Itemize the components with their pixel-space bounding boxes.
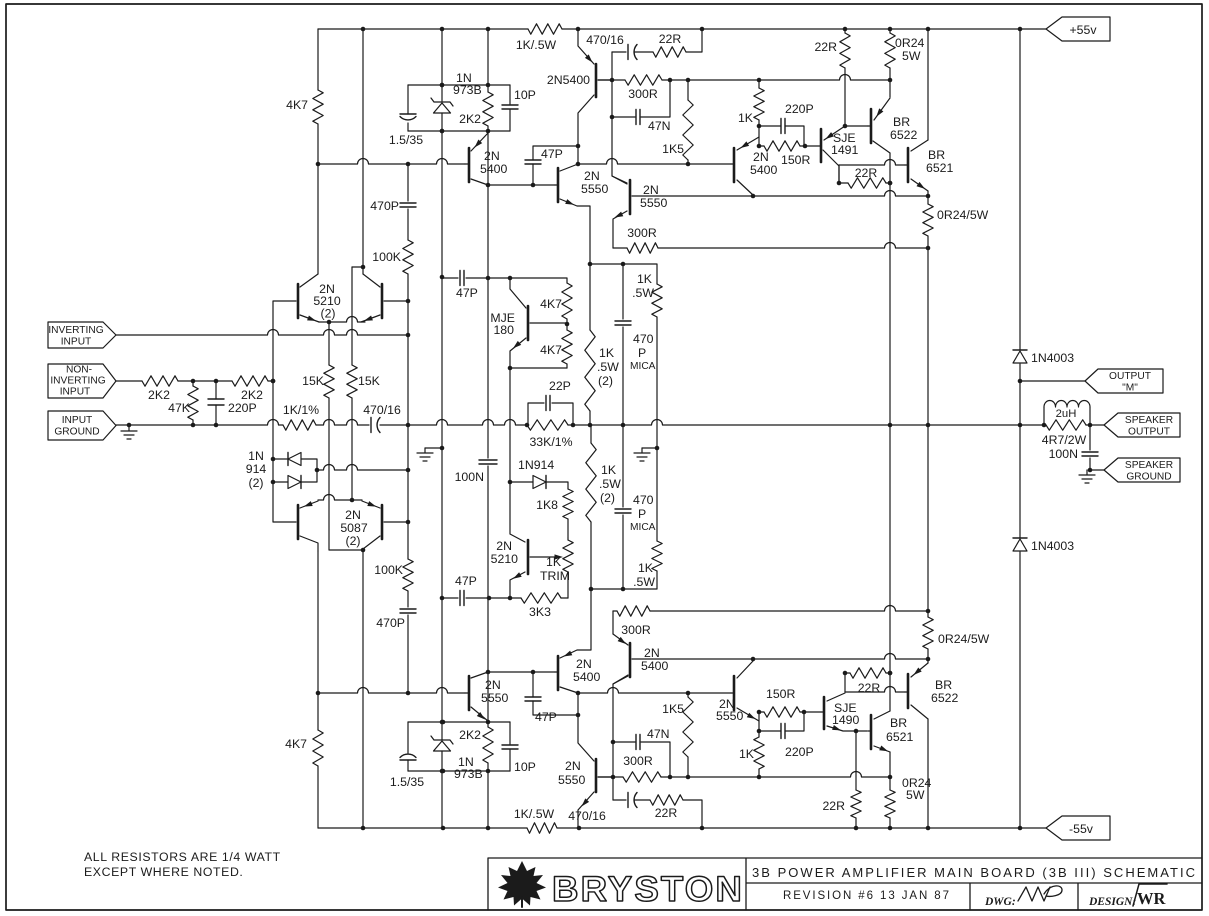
- wire x488 lower: [487, 598, 489, 828]
- resistor 22R vert bottom: [822, 731, 861, 828]
- wire row y672: [486, 670, 555, 675]
- svg-text:47N: 47N: [647, 727, 670, 741]
- svg-text:150R: 150R: [766, 687, 796, 701]
- resistor 1K TRIM: [540, 538, 573, 598]
- svg-text:REVISION #6 13 JAN 87: REVISION #6 13 JAN 87: [783, 890, 949, 902]
- svg-text:100K: 100K: [374, 563, 404, 577]
- wire row y470: [317, 465, 410, 473]
- svg-text:+55v: +55v: [1069, 23, 1097, 37]
- svg-text:GROUND: GROUND: [54, 427, 99, 438]
- svg-text:470P: 470P: [376, 616, 405, 630]
- wire x890 top: [888, 80, 893, 425]
- svg-text:1K/.5W: 1K/.5W: [516, 38, 557, 52]
- resistor 100K lower: [374, 522, 413, 607]
- svg-text:4K7: 4K7: [540, 343, 562, 357]
- svg-text:BR: BR: [890, 716, 907, 730]
- svg-text:1K: 1K: [738, 111, 754, 125]
- svg-text:ALL RESISTORS ARE 1/4 WATT: ALL RESISTORS ARE 1/4 WATT: [84, 850, 281, 864]
- DWG signature: [1018, 886, 1062, 901]
- svg-text:(2): (2): [320, 307, 335, 321]
- zener 1N973B top: [431, 71, 482, 113]
- resistor 2K2 input B: [232, 376, 273, 402]
- svg-text:0R24/5W: 0R24/5W: [938, 632, 990, 646]
- svg-text:5087: 5087: [340, 521, 368, 535]
- inductor 2uH: [1044, 401, 1090, 426]
- transistor BR6522 upper: [868, 98, 918, 153]
- wire row y278: [442, 276, 567, 283]
- logo maple leaf: [498, 861, 546, 907]
- capacitor 47P row278: [456, 271, 478, 301]
- svg-text:10P: 10P: [514, 760, 536, 774]
- transistor 2N5550 Q2: [555, 164, 609, 264]
- wire x488 upper: [487, 29, 489, 278]
- transistor 2N5400 Q10: [613, 611, 669, 684]
- svg-text:100K: 100K: [372, 250, 402, 264]
- svg-text:5550: 5550: [640, 196, 668, 210]
- svg-text:-55v: -55v: [1069, 822, 1094, 836]
- svg-text:470P: 470P: [370, 199, 399, 213]
- svg-text:22P: 22P: [549, 379, 571, 393]
- flag SPEAKER GROUND: [1079, 458, 1180, 483]
- transistor 2N5550 Q7: [465, 672, 509, 721]
- svg-text:2N: 2N: [345, 508, 361, 522]
- ground mid right: [634, 446, 659, 461]
- resistor 33K/1%: [527, 420, 573, 449]
- transistor SJE1491: [805, 126, 859, 183]
- capacitor 47N bottom: [613, 727, 670, 777]
- capacitor 47P loop bottom: [525, 672, 578, 724]
- wire x408 upper: [407, 164, 409, 240]
- wire x890 bottom: [888, 425, 893, 777]
- svg-text:"M": "M": [1122, 383, 1138, 394]
- svg-text:(2): (2): [345, 534, 360, 548]
- transistor 2N5087 pair: [298, 495, 382, 553]
- DWG label: [984, 896, 1016, 908]
- svg-text:470/16: 470/16: [568, 809, 606, 823]
- svg-text:22R: 22R: [858, 681, 881, 695]
- svg-text:1N4003: 1N4003: [1031, 351, 1074, 365]
- flag INPUT GROUND: [48, 411, 116, 440]
- zener 1N973B bottom: [431, 736, 483, 781]
- resistor 4K7 B: [540, 324, 572, 368]
- wire 5087 base right: [384, 520, 410, 525]
- capacitor 22P: [528, 379, 573, 425]
- svg-text:1N914: 1N914: [518, 458, 554, 472]
- svg-text:1K/1%: 1K/1%: [283, 403, 319, 417]
- svg-text:1.5/35: 1.5/35: [390, 775, 424, 789]
- flag -55v: [1046, 816, 1110, 840]
- svg-text:5400: 5400: [480, 162, 508, 176]
- flag OUTPUT M: [1020, 369, 1163, 394]
- svg-text:GROUND: GROUND: [1126, 472, 1171, 483]
- resistor 2K2 bottom: [459, 722, 493, 771]
- svg-text:220P: 220P: [228, 401, 257, 415]
- resistor 2K2 input A: [116, 376, 275, 402]
- wire row y185: [486, 183, 555, 188]
- svg-text:1.5/35: 1.5/35: [389, 133, 423, 147]
- resistor 300R top: [625, 75, 662, 101]
- svg-text:470/16: 470/16: [363, 403, 401, 417]
- resistor 22R row y673: [843, 668, 893, 695]
- wire row y692 SJE collector: [845, 673, 905, 692]
- capacitor 470P upper: [370, 199, 416, 213]
- diode 1N4003 lower: [1013, 538, 1074, 828]
- svg-text:1K: 1K: [637, 272, 653, 286]
- svg-text:1K/.5W: 1K/.5W: [514, 807, 555, 821]
- wire x759 mid top: [757, 124, 762, 149]
- transistor MJE180: [490, 278, 567, 368]
- resistor 22R row y183: [837, 165, 893, 188]
- svg-text:5550: 5550: [716, 709, 744, 723]
- wire row y165 SJE collector: [839, 160, 905, 166]
- svg-text:2N: 2N: [643, 183, 659, 197]
- resistor 1K5 bottom: [662, 693, 693, 777]
- svg-text:BR: BR: [935, 678, 952, 692]
- svg-text:P: P: [638, 346, 646, 360]
- resistor 300R mid bottom: [613, 606, 930, 638]
- transistor 2N5400 Q5: [731, 137, 778, 195]
- wire node row y693 right: [578, 688, 731, 696]
- svg-text:180: 180: [493, 323, 514, 337]
- svg-text:4K7: 4K7: [286, 98, 308, 112]
- svg-text:2N: 2N: [484, 149, 500, 163]
- svg-text:2N: 2N: [485, 678, 501, 692]
- flag SPEAKER OUTPUT: [1090, 413, 1180, 438]
- wire loop rows y85 y131: [408, 83, 510, 134]
- capacitor 47N top: [612, 80, 671, 133]
- svg-text:1N4003: 1N4003: [1031, 539, 1074, 553]
- transistor BR6522 lower: [905, 663, 959, 719]
- wire row y80: [598, 75, 892, 83]
- wire x363 lower: [362, 550, 364, 828]
- svg-text:.5W: .5W: [633, 575, 655, 589]
- resistor 15K B: [347, 267, 381, 500]
- svg-text:300R: 300R: [621, 623, 651, 637]
- title text: [752, 865, 1195, 880]
- svg-text:2N: 2N: [753, 150, 769, 164]
- resistor 0R24/5W D: [885, 776, 932, 828]
- resistor 22R top loop: [653, 29, 702, 57]
- capacitor 220P top: [759, 102, 814, 146]
- svg-text:15K: 15K: [302, 374, 325, 388]
- svg-text:5210: 5210: [491, 552, 519, 566]
- ground mid left: [417, 448, 442, 461]
- svg-text:2K2: 2K2: [148, 388, 170, 402]
- resistor 300R mid top: [613, 226, 930, 253]
- resistor 1K5 top: [662, 80, 693, 164]
- capacitor 470P MICA upper: [615, 264, 656, 425]
- svg-text:.5W: .5W: [597, 360, 619, 374]
- resistor 1K .5W mid upper: [632, 272, 662, 448]
- capacitor 220P input: [208, 381, 257, 425]
- svg-text:22R: 22R: [822, 799, 845, 813]
- resistor 4K7 A: [540, 283, 572, 326]
- wire row y659: [632, 654, 930, 662]
- svg-text:47P: 47P: [455, 574, 477, 588]
- svg-text:P: P: [638, 507, 646, 521]
- svg-text:1490: 1490: [832, 713, 860, 727]
- svg-text:MICA: MICA: [630, 361, 656, 372]
- wire loop rows y722 y771: [408, 720, 510, 774]
- svg-text:BR: BR: [928, 148, 945, 162]
- diode 1N4003 upper: [1013, 29, 1074, 381]
- svg-text:22R: 22R: [855, 166, 878, 180]
- resistor 150R bottom: [759, 687, 821, 717]
- svg-text:INPUT: INPUT: [61, 337, 92, 348]
- resistor 3K3: [521, 593, 568, 619]
- wire x612 column: [610, 52, 627, 184]
- svg-text:OUTPUT: OUTPUT: [1109, 371, 1151, 382]
- svg-text:10P: 10P: [514, 88, 536, 102]
- diode 1N914 trim: [510, 458, 568, 489]
- diode 1N914 pair: [246, 449, 320, 490]
- svg-text:5550: 5550: [581, 182, 609, 196]
- svg-text:22R: 22R: [814, 40, 837, 54]
- svg-text:300R: 300R: [628, 87, 658, 101]
- logo BRYSTON text: [552, 870, 744, 909]
- resistor 1K .5W (2) lower: [586, 425, 621, 589]
- svg-text:22R: 22R: [659, 32, 682, 46]
- svg-text:220P: 220P: [785, 102, 814, 116]
- svg-text:1K: 1K: [739, 747, 755, 761]
- svg-text:TRIM: TRIM: [540, 569, 570, 583]
- svg-text:5400: 5400: [750, 163, 778, 177]
- svg-text:47P: 47P: [535, 710, 557, 724]
- revision text: [783, 890, 949, 902]
- transistor 2N5210 Q6: [491, 482, 563, 598]
- resistor 2K2 top: [459, 85, 493, 131]
- wire x442 column: [440, 29, 445, 828]
- svg-text:470: 470: [633, 332, 654, 346]
- svg-text:2N5400: 2N5400: [547, 73, 590, 87]
- svg-text:SPEAKER: SPEAKER: [1125, 415, 1173, 426]
- transistor SJE1490: [821, 693, 867, 733]
- svg-text:5400: 5400: [641, 659, 669, 673]
- transistor 2N5550 Q4: [612, 176, 668, 248]
- svg-text:1K8: 1K8: [536, 498, 558, 512]
- resistor 1K bottom: [739, 731, 764, 777]
- wire x510 mid: [508, 368, 513, 484]
- resistor 1K/.5W top rail: [516, 24, 562, 52]
- capacitor 470/16 bottom: [568, 793, 650, 824]
- svg-text:6521: 6521: [886, 730, 914, 744]
- svg-text:INVERTING: INVERTING: [48, 325, 103, 336]
- svg-text:1K5: 1K5: [662, 142, 684, 156]
- wire x613 column bottom: [611, 676, 628, 800]
- wire row y368: [508, 366, 567, 371]
- svg-text:1N: 1N: [248, 449, 264, 463]
- svg-text:WR: WR: [1137, 889, 1167, 908]
- svg-text:470: 470: [633, 493, 654, 507]
- svg-text:2uH: 2uH: [1056, 408, 1077, 420]
- transistor 2N5210 pair: [298, 274, 382, 324]
- transistor 2N5550 Q11: [716, 661, 759, 723]
- svg-text:47P: 47P: [541, 147, 563, 161]
- svg-text:3K3: 3K3: [529, 605, 551, 619]
- wire x408 mid: [407, 301, 409, 522]
- resistor 1K/1%: [283, 403, 319, 430]
- svg-text:47N: 47N: [648, 119, 671, 133]
- resistor 4K7 upper left: [286, 29, 323, 164]
- wire x928 bottom: [927, 425, 929, 828]
- svg-text:2N: 2N: [565, 759, 581, 773]
- svg-text:47P: 47P: [456, 286, 478, 300]
- svg-text:914: 914: [246, 462, 267, 476]
- svg-text:DESIGN:: DESIGN:: [1088, 896, 1136, 908]
- capacitor 100N mid: [455, 278, 497, 598]
- wire x928 top: [927, 29, 929, 425]
- svg-text:6522: 6522: [931, 691, 959, 705]
- svg-text:0R24/5W: 0R24/5W: [937, 208, 989, 222]
- wire -55v rail: [318, 826, 1046, 831]
- svg-text:2K2: 2K2: [459, 728, 481, 742]
- wire x578 bottom: [576, 691, 594, 828]
- svg-text:300R: 300R: [627, 226, 657, 240]
- resistor 1K8: [536, 489, 573, 538]
- svg-text:1K: 1K: [638, 561, 654, 575]
- flag +55v: [1046, 17, 1110, 41]
- svg-text:2N: 2N: [496, 539, 512, 553]
- svg-text:OUTPUT: OUTPUT: [1128, 427, 1170, 438]
- svg-text:SPEAKER: SPEAKER: [1125, 460, 1173, 471]
- svg-text:973B: 973B: [454, 767, 483, 781]
- svg-text:BR: BR: [893, 115, 910, 129]
- svg-text:15K: 15K: [358, 374, 381, 388]
- resistor 300R bottom: [623, 754, 661, 782]
- svg-text:(2): (2): [600, 491, 615, 505]
- capacitor 47P loop top: [525, 146, 578, 185]
- wire node row y164 right: [578, 159, 731, 167]
- svg-text:6521: 6521: [926, 161, 954, 175]
- resistor 0R24/5W B: [923, 196, 989, 248]
- svg-text:4K7: 4K7: [540, 297, 562, 311]
- wire node row y693 left: [316, 688, 465, 696]
- svg-text:BRYSTON: BRYSTON: [552, 870, 744, 909]
- capacitor 10P top: [502, 85, 536, 131]
- capacitor 1.5/35 bottom: [390, 722, 424, 789]
- svg-text:4R7/2W: 4R7/2W: [1042, 433, 1087, 447]
- note text: [84, 850, 281, 879]
- wire row y589: [589, 571, 657, 591]
- resistor 4K7 lower left: [285, 551, 323, 828]
- svg-text:0R24: 0R24: [895, 36, 925, 50]
- svg-text:220P: 220P: [785, 745, 814, 759]
- svg-text:2N: 2N: [584, 169, 600, 183]
- capacitor 100N output: [1049, 425, 1098, 470]
- transistor 2N5550 Q9: [558, 759, 613, 807]
- svg-text:.5W: .5W: [599, 477, 621, 491]
- capacitor 470P MICA lower: [615, 425, 656, 589]
- svg-text:(2): (2): [248, 476, 263, 490]
- resistor 1K .5W mid lower: [633, 448, 662, 589]
- wire +55v rail: [318, 27, 1046, 32]
- resistor 0R24/5W C: [923, 611, 990, 663]
- svg-text:(2): (2): [598, 374, 613, 388]
- transistor 2N5400 Q8: [555, 589, 601, 693]
- svg-text:470/16: 470/16: [586, 33, 624, 47]
- resistor 150R top: [759, 141, 811, 167]
- svg-text:33K/1%: 33K/1%: [529, 435, 572, 449]
- svg-text:MICA: MICA: [630, 522, 656, 533]
- svg-text:2K2: 2K2: [241, 388, 263, 402]
- flag NON-INVERTING INPUT: [48, 364, 116, 398]
- resistor 1K/.5W bottom rail: [514, 807, 557, 833]
- wire node row y164 left: [316, 159, 465, 167]
- flag INVERTING INPUT: [48, 322, 116, 348]
- wire 5210 base right: [384, 300, 408, 302]
- svg-text:100N: 100N: [455, 470, 484, 484]
- resistor 0R24/5W A: [885, 29, 925, 80]
- transistor BR6521 lower: [868, 711, 914, 752]
- WR monogram: [1133, 884, 1167, 908]
- svg-text:22R: 22R: [655, 806, 678, 820]
- svg-text:1K5: 1K5: [662, 702, 684, 716]
- wire x1020 mid: [1018, 379, 1023, 538]
- svg-text:2N: 2N: [576, 657, 592, 671]
- wire row y777: [598, 772, 892, 780]
- wire x759 mid bottom: [757, 710, 762, 734]
- svg-text:5W: 5W: [906, 788, 925, 802]
- resistor 22R vert top: [814, 29, 868, 128]
- capacitor 470/16 bus: [363, 403, 401, 433]
- resistor 1K .5W (2) upper: [585, 264, 619, 425]
- svg-text:DWG:: DWG:: [984, 896, 1016, 908]
- svg-text:INPUT: INPUT: [62, 415, 93, 426]
- capacitor 10P bottom: [502, 722, 536, 774]
- svg-text:4K7: 4K7: [285, 737, 307, 751]
- svg-text:2N: 2N: [644, 646, 660, 660]
- transistor 2N5400 Q1: [465, 133, 508, 185]
- svg-text:INVERTING: INVERTING: [50, 376, 105, 387]
- resistor 15K A: [302, 322, 363, 550]
- resistor 47K: [168, 381, 198, 425]
- wire row y196: [632, 191, 930, 199]
- resistor 1K top: [738, 80, 764, 126]
- resistor 22R bottom loop: [650, 795, 702, 828]
- wire x318 upper: [317, 164, 319, 274]
- svg-text:300R: 300R: [623, 754, 653, 768]
- svg-text:1K: 1K: [546, 555, 562, 569]
- svg-text:6522: 6522: [890, 128, 918, 142]
- svg-text:150R: 150R: [781, 153, 811, 167]
- svg-text:5550: 5550: [481, 691, 509, 705]
- wire x578 top: [576, 29, 594, 166]
- DESIGN label: [1088, 896, 1136, 908]
- svg-text:5550: 5550: [558, 773, 586, 787]
- svg-text:47K: 47K: [168, 401, 191, 415]
- capacitor 470/16 top: [586, 33, 653, 60]
- resistor 100K upper: [372, 240, 413, 303]
- resistor 4R7/2W: [1042, 420, 1087, 447]
- svg-text:5400: 5400: [573, 670, 601, 684]
- wire inverting row: [116, 330, 410, 338]
- wire x363 top: [352, 29, 365, 274]
- svg-text:EXCEPT WHERE NOTED.: EXCEPT WHERE NOTED.: [84, 865, 243, 879]
- svg-text:1K: 1K: [599, 346, 615, 360]
- transistor BR6521 upper: [905, 140, 954, 191]
- svg-text:.5W: .5W: [632, 286, 654, 300]
- ground input: [121, 426, 137, 439]
- svg-text:1491: 1491: [831, 143, 859, 157]
- capacitor 1.5/35 top: [389, 85, 423, 147]
- capacitor 470P lower: [376, 609, 416, 693]
- svg-text:5W: 5W: [902, 49, 921, 63]
- title block frame: [488, 858, 1202, 910]
- wire row y264: [588, 262, 657, 284]
- capacitor 47P row598: [455, 574, 477, 606]
- svg-text:NON-: NON-: [66, 365, 92, 376]
- capacitor 220P bottom: [759, 712, 814, 759]
